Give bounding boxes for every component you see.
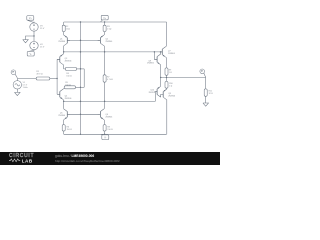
wire V4 bottom stub <box>33 50 35 51</box>
svg-text:2N3906: 2N3906 <box>168 95 175 97</box>
footer project title <box>55 154 94 158</box>
wire R6 to rail <box>63 131 65 134</box>
wire Q7 emitter to Re1 <box>166 57 168 68</box>
junction R5 crossing <box>80 87 81 88</box>
wire Q6 to R8 <box>104 120 106 125</box>
node V- flag (rail) <box>101 134 109 139</box>
ground (supply) <box>23 40 29 43</box>
resistor R1 49.9 <box>36 71 50 80</box>
junction OUT x166 <box>166 77 167 78</box>
node OUT flag <box>200 69 206 77</box>
wire R7 to drive low <box>104 82 106 101</box>
junction input node <box>56 78 57 79</box>
svg-text:goku-bnu / LME49600-006: goku-bnu / LME49600-006 <box>55 154 94 158</box>
junction drive low left <box>63 101 64 102</box>
node V- flag (supply) <box>27 50 34 56</box>
footer url <box>55 159 120 163</box>
wire Q9 collector up <box>160 52 162 54</box>
wire V- rail <box>64 133 167 135</box>
resistor R4 150 <box>65 67 76 77</box>
wire V3 to V4 <box>33 31 35 41</box>
junction rail x80 <box>80 21 81 22</box>
wire V+ to V- center <box>80 22 82 134</box>
svg-text:1 kΩ: 1 kΩ <box>107 28 112 30</box>
ground (input) <box>15 92 21 95</box>
transistor Q6 2N3906 <box>98 109 112 120</box>
svg-text:2N3906: 2N3906 <box>105 116 112 118</box>
svg-text:2N3906: 2N3906 <box>105 41 112 43</box>
voltage source V3 15V <box>30 23 45 31</box>
junction center drive low <box>80 101 81 102</box>
svg-text:2N3904: 2N3904 <box>168 53 176 55</box>
wire drive drop to Q9 base <box>154 52 157 60</box>
transistor Q4 2N3906 (lower driver) <box>57 89 71 100</box>
junction supply mid <box>33 35 34 36</box>
svg-text:http://circuitlab.com/c6wq4kd3: http://circuitlab.com/c6wq4kd3e/lme49600… <box>55 159 120 163</box>
wire Q1 emitter to drive <box>63 46 65 54</box>
svg-text:LAB: LAB <box>22 159 33 164</box>
wire base bus bottom <box>67 113 100 115</box>
transistor Q10 2N3904 (mid bottom) <box>149 86 161 97</box>
svg-text:150 Ω: 150 Ω <box>65 84 71 86</box>
junction rail x104 <box>104 21 105 22</box>
junction OUT x160 <box>160 77 161 78</box>
ground (load) <box>203 103 209 106</box>
junction drive x104 <box>104 51 105 52</box>
wire Q10 emitter to Q8 base <box>160 94 162 97</box>
junction drive x154 <box>154 51 155 52</box>
svg-text:2N3904: 2N3904 <box>65 61 73 63</box>
wire V+ rail <box>64 21 167 23</box>
svg-text:49.9 Ω: 49.9 Ω <box>36 74 43 76</box>
svg-text:150 Ω: 150 Ω <box>67 129 73 131</box>
wire RL to ground <box>205 96 207 103</box>
wire to ground <box>26 36 35 40</box>
wire drive low rise to Q10 base <box>155 92 157 102</box>
wire Q5 to R6 <box>63 120 65 125</box>
wire R4 right <box>77 68 85 70</box>
wire Q8 base link <box>160 93 162 95</box>
wire Q2 emitter to drive <box>104 46 106 52</box>
wire OUT corner to RL <box>205 78 207 89</box>
transistor Q7 2N3904 (output top) <box>160 47 176 58</box>
wire Q4 collector to drive low <box>63 100 65 102</box>
svg-text:4.7 kΩ: 4.7 kΩ <box>107 79 113 81</box>
resistor R11 32 (load) <box>204 89 213 96</box>
svg-text:V-: V- <box>30 54 32 56</box>
wire base bus top <box>67 39 100 41</box>
wire V1 to ground <box>16 89 18 92</box>
svg-text:15 V: 15 V <box>40 47 45 49</box>
wire OUT rail <box>161 77 206 79</box>
resistor R3 <box>103 22 112 32</box>
transistor Q1 2N3906 <box>58 35 70 46</box>
transistor Q9 2N3906 (mid top) <box>147 54 161 65</box>
wire drive to Q5 <box>63 101 65 109</box>
wire driver base stub <box>57 58 60 60</box>
junction drive left <box>63 51 64 52</box>
resistor R2 <box>62 22 70 32</box>
wire Re1 to OUT <box>166 75 168 77</box>
wire R8 to rail <box>104 131 106 134</box>
wire OUT down to Q10 <box>160 78 162 87</box>
wire drive top <box>64 51 163 53</box>
svg-text:150 Ω: 150 Ω <box>107 129 113 131</box>
wire source to R1 <box>17 79 36 82</box>
svg-text:2N3906: 2N3906 <box>58 115 65 117</box>
junction center drive <box>80 51 81 52</box>
resistor R7 4.7k <box>103 75 113 82</box>
svg-text:150 Ω: 150 Ω <box>66 76 72 78</box>
footer bar <box>0 152 220 165</box>
wire bias U vertical <box>83 69 85 87</box>
svg-text:1 kHz: 1 kHz <box>23 87 28 89</box>
wire Q9 emitter to OUT <box>160 65 162 78</box>
svg-text:V-: V- <box>104 137 106 139</box>
svg-text:2N3906: 2N3906 <box>147 63 154 65</box>
svg-text:32 Ω: 32 Ω <box>209 93 214 95</box>
transistor Q8 2N3906 (output bottom) <box>161 89 175 100</box>
resistor R5 150 <box>64 82 75 89</box>
wire Q8 collector to rail <box>166 100 168 135</box>
wire R5 right <box>76 86 85 88</box>
svg-text:2N3906: 2N3906 <box>58 41 65 43</box>
voltage source V1 sine <box>13 81 28 89</box>
node IN flag <box>11 70 17 78</box>
wire center to R7 <box>104 52 106 75</box>
wire driver base stub low <box>57 93 60 95</box>
svg-text:2N3906: 2N3906 <box>65 98 72 100</box>
svg-text:1 kΩ: 1 kΩ <box>66 28 71 30</box>
transistor Q5 2N3906 <box>58 109 70 120</box>
CircuitLab logo <box>9 153 34 163</box>
wire Q4 emitter to R5 <box>63 88 66 89</box>
wire rail to Q7 collector <box>166 22 168 47</box>
wire Q3 collector to R4 <box>64 65 66 69</box>
wire V3 top stub <box>33 22 35 23</box>
resistor R10 1 (Re2) <box>165 81 173 88</box>
transistor Q2 2N3906 <box>98 35 112 46</box>
wire input vertical <box>56 59 58 94</box>
transistor Q3 2N3904 (upper driver) <box>57 54 72 65</box>
wire drive low <box>64 100 156 102</box>
junction base bus low x80 <box>80 114 81 115</box>
node V+ flag (rail) <box>101 15 109 21</box>
junction R4 crossing <box>80 68 81 69</box>
junction base bus x80 <box>80 40 81 41</box>
junction drive low x104 <box>104 101 105 102</box>
wire R3 to Q2 <box>104 32 106 35</box>
junction botrail x80 <box>80 134 81 135</box>
junction botrail x104 <box>104 134 105 135</box>
resistor R9 1 (Re1) <box>165 68 172 75</box>
node V+ flag (supply) <box>27 16 34 23</box>
wire OUT to Re2 <box>166 78 168 82</box>
resistor R6 150 <box>62 125 72 131</box>
resistor R8 150 <box>103 125 113 131</box>
wire Re2 to Q8 <box>166 87 168 90</box>
svg-text:15 V: 15 V <box>40 28 45 30</box>
junction Q9 collector <box>160 51 161 52</box>
voltage source V4 15V <box>30 41 45 49</box>
wire R2 to Q1 <box>63 32 65 35</box>
wire center to Q6 <box>104 101 106 109</box>
wire R1 to input node <box>50 78 57 80</box>
